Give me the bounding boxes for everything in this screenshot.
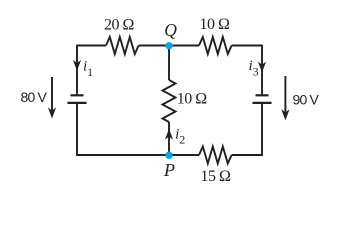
svg-text:P: P: [163, 160, 175, 180]
svg-text:10 Ω: 10 Ω: [177, 91, 208, 108]
svg-text:20 Ω: 20 Ω: [104, 17, 135, 34]
svg-text:i1: i1: [83, 59, 93, 79]
svg-text:80 V: 80 V: [21, 89, 48, 105]
svg-text:10 Ω: 10 Ω: [200, 16, 231, 33]
svg-text:90 V: 90 V: [293, 92, 320, 108]
svg-text:i3: i3: [249, 58, 259, 79]
svg-text:15 Ω: 15 Ω: [201, 168, 232, 185]
svg-text:Q: Q: [164, 20, 177, 40]
svg-text:i2: i2: [175, 127, 185, 147]
